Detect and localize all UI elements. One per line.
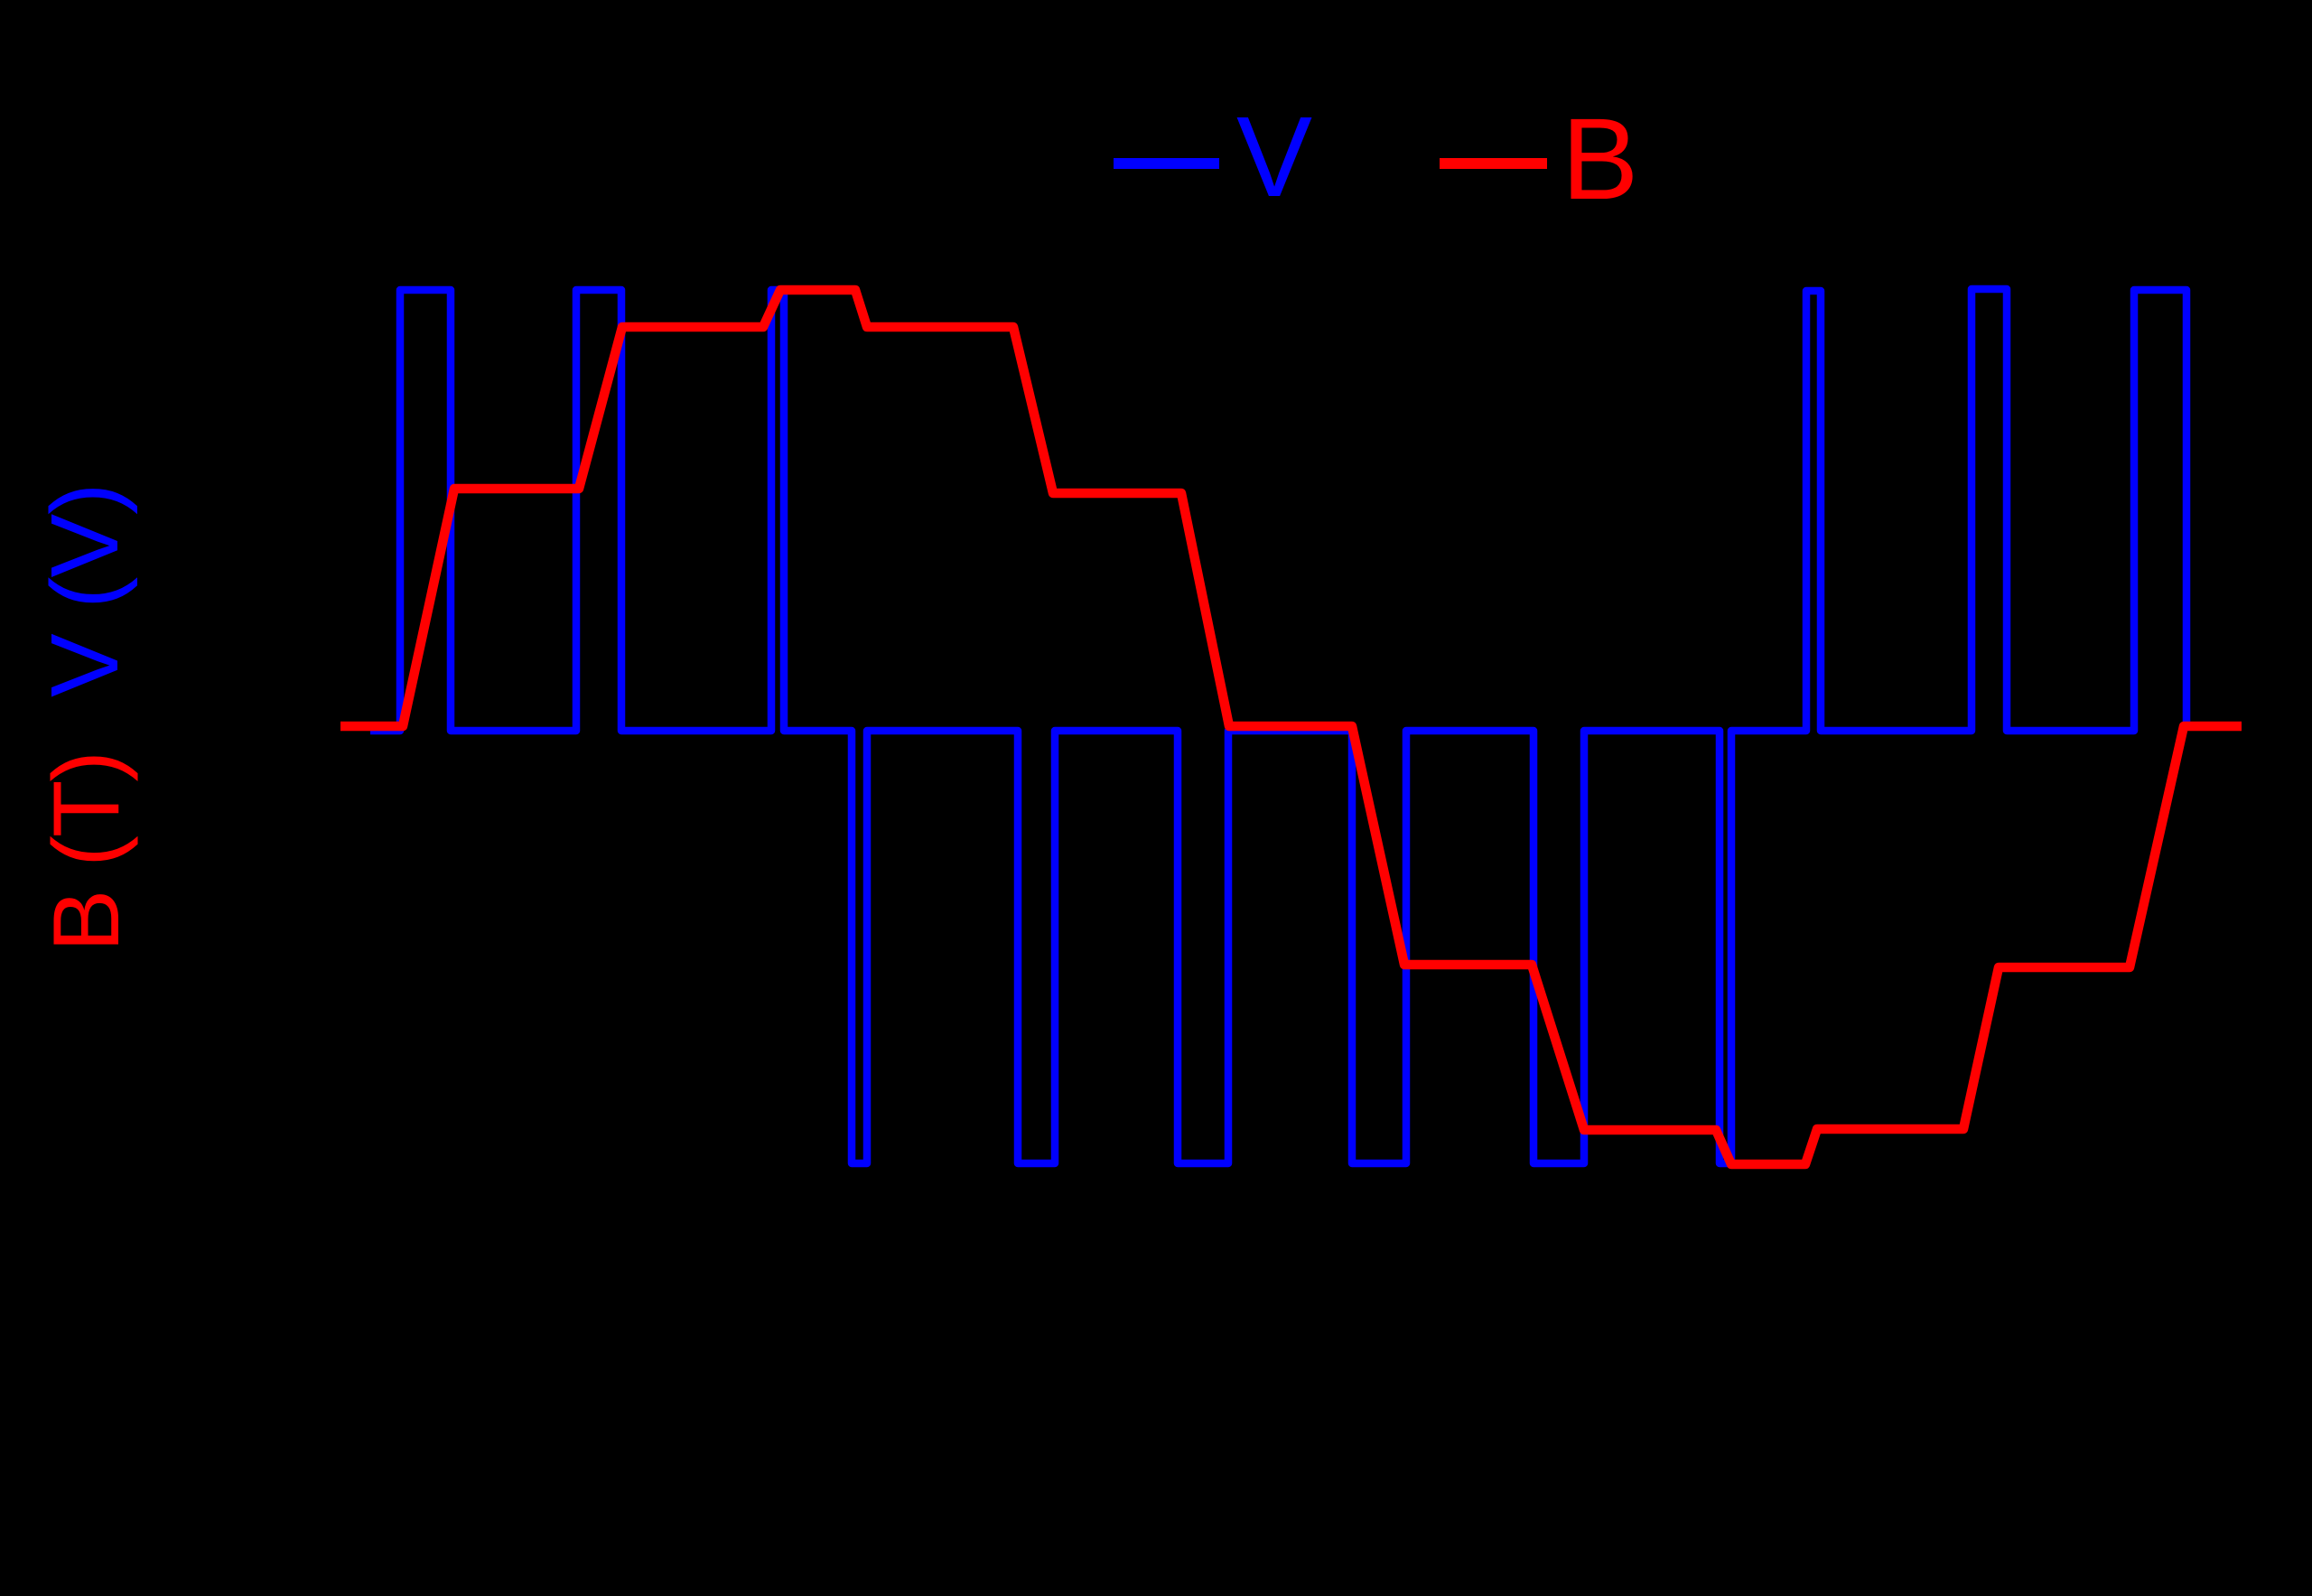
curve V (blue pulse train) — [370, 289, 2186, 1163]
legend line B — [1440, 158, 1547, 169]
svg-text:B: B — [1562, 95, 1638, 224]
legend line V — [1114, 158, 1219, 169]
svg-text:V: V — [1236, 93, 1312, 220]
svg-text:V (V): V (V) — [32, 484, 138, 697]
curve B (red staircase) — [340, 290, 2242, 1164]
svg-text:B (T): B (T) — [34, 752, 139, 952]
